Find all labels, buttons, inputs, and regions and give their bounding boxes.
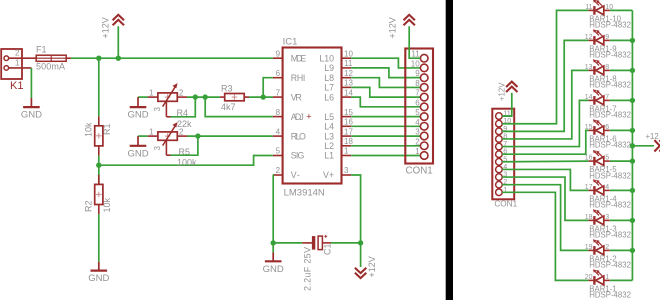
wire R4 pin1 [138,96,148,98]
svg-text:L1: L1 [324,151,334,161]
svg-text:HDSP-4832: HDSP-4832 [589,231,631,240]
svg-text:CON1: CON1 [406,166,433,177]
wire L2 to CON1 pin2 [351,145,420,147]
junction R4 wiper node [193,94,198,99]
svg-text:IC1: IC1 [283,36,298,47]
LED BAR1-7 HDSP-4832 [585,89,631,119]
wire R5 wiper [171,136,198,155]
resistor R2 [84,175,113,215]
svg-text:5: 5 [605,155,609,162]
svg-text:10k: 10k [84,122,94,137]
wire R1 bottom [98,156,100,166]
wire L3 to CON1 pin3 [351,135,420,137]
ground GND at K1 [21,98,42,121]
wire V+ to +12V [360,243,362,267]
wire RHI net [263,78,273,97]
svg-text:18: 18 [585,214,593,221]
svg-text:CON1: CON1 [494,200,517,209]
wire BAR1-1 anode to bus [610,279,633,281]
svg-text:13: 13 [585,64,593,71]
svg-text:L9: L9 [324,63,334,73]
wire +12V to CON1 pin11 [409,26,420,58]
svg-text:3: 3 [153,146,162,151]
svg-text:15: 15 [585,124,593,131]
wire ADJ net [205,97,273,117]
wire CON1 pin10 to BAR1-10 [502,10,588,123]
wire R4 pin2 net [187,96,220,98]
wire CON1 pin8 to BAR1-8 [502,70,588,139]
wire to +12V supply [117,26,119,58]
svg-text:6: 6 [415,98,420,107]
wire CON1 pin5 to BAR1-5 [502,160,588,163]
svg-text:6: 6 [276,69,281,78]
svg-text:4: 4 [605,184,609,191]
svg-text:9: 9 [415,69,420,78]
svg-text:4: 4 [415,118,420,127]
LED BAR1-5 HDSP-4832 [585,150,631,180]
wire L10 to CON1 pin10 [351,58,420,68]
svg-text:HDSP-4832: HDSP-4832 [589,261,631,270]
svg-text:7: 7 [415,89,420,98]
svg-text:1: 1 [15,58,20,67]
svg-text:4k7: 4k7 [221,102,236,112]
svg-text:8: 8 [276,108,281,117]
svg-text:8: 8 [605,64,609,71]
wire bus to +12 supply [632,145,654,147]
junction GND node [271,240,276,245]
wire VR net [249,96,273,98]
svg-text:GND: GND [88,273,109,284]
junction at R1 top [96,56,101,61]
svg-text:V-: V- [291,170,300,180]
wire RLO net [187,135,273,137]
svg-text:3: 3 [153,107,162,112]
svg-text:1: 1 [344,147,349,156]
fuse F1 [31,44,71,71]
junction bus [630,248,635,253]
svg-text:HDSP-4832: HDSP-4832 [589,291,631,300]
LED BAR1-1 HDSP-4832 [585,269,631,299]
LED BAR1-2 HDSP-4832 [585,239,631,269]
svg-text:16: 16 [585,155,593,162]
svg-text:RLO: RLO [291,131,306,141]
wire R1 top [98,58,100,116]
svg-text:3: 3 [344,166,349,175]
svg-text:1: 1 [149,127,154,136]
svg-text:+: + [306,112,311,122]
svg-text:GND: GND [127,110,148,121]
wire CON1 pin9 to BAR1-9 [502,40,588,131]
svg-text:L6: L6 [324,92,334,102]
junction bus [630,38,635,43]
wire L9 to CON1 pin9 [351,68,420,78]
svg-text:12: 12 [585,34,593,41]
LED BAR1-10 HDSP-4832 [585,0,631,30]
junction bus [630,188,635,193]
svg-text:L4: L4 [324,122,334,132]
wire CON1 pin1 to BAR1-1 [502,192,588,280]
ground GND at C1 [263,253,284,275]
wire R2 top [98,165,100,184]
resistor R3 [220,83,249,112]
svg-text:11: 11 [585,4,592,11]
junction bus [630,98,635,103]
resistor R1 [84,116,113,155]
LED BAR1-4 HDSP-4832 [585,179,631,209]
svg-text:K1: K1 [10,80,23,92]
svg-text:8: 8 [415,79,420,88]
wire SIG net [99,156,273,166]
svg-text:2: 2 [605,244,609,251]
svg-text:R1: R1 [102,123,112,135]
svg-text:14: 14 [585,94,593,101]
wire bottom rail right [331,242,361,244]
svg-text:6: 6 [605,124,609,131]
wire CON1 pin7 to BAR1-7 [502,100,588,146]
supply +12V top left [101,15,124,39]
wire CON1 pin4 to BAR1-4 [502,169,588,190]
svg-text:HDSP-4832: HDSP-4832 [589,141,631,150]
wire L8 to CON1 pin8 [351,78,420,88]
LED BAR1-6 HDSP-4832 [585,119,631,149]
wire L5 to CON1 pin5 [351,116,420,118]
ground GND bottom left [88,262,109,284]
svg-text:HDSP-4832: HDSP-4832 [589,81,631,90]
wire V+ net [351,175,360,243]
svg-text:ADJ: ADJ [291,112,304,122]
svg-text:5: 5 [415,108,420,117]
svg-text:HDSP-4832: HDSP-4832 [589,51,631,60]
svg-text:500mA: 500mA [36,61,65,71]
svg-text:C1: C1 [323,243,333,255]
trimmer R5 [148,122,197,167]
wire BAR1-4 anode to bus [610,189,633,191]
svg-text:1: 1 [605,274,609,281]
wire +12 bus vertical [631,10,633,280]
svg-text:MDE: MDE [291,53,307,63]
wire BAR1-7 anode to bus [610,99,633,101]
junction bus [630,158,635,163]
svg-text:7: 7 [605,94,609,101]
svg-text:5: 5 [276,147,281,156]
svg-text:2: 2 [415,137,420,146]
wire BAR1-2 anode to bus [610,249,633,251]
svg-text:100k: 100k [177,157,197,167]
svg-text:17: 17 [585,184,593,191]
wire CON1 pin2 to BAR1-2 [502,185,588,251]
wire L7 to CON1 pin7 [351,87,420,97]
svg-text:3: 3 [415,128,420,137]
ground GND at R4 [127,97,148,121]
svg-text:18: 18 [344,137,353,146]
svg-text:4: 4 [276,127,281,136]
svg-text:GND: GND [21,110,42,121]
wire L6 to CON1 pin6 [351,97,420,107]
svg-text:L7: L7 [324,83,334,93]
wire BAR1-9 anode to bus [610,39,633,41]
svg-text:RHI: RHI [291,73,306,83]
svg-text:14: 14 [344,88,353,97]
capacitor C1 [302,235,332,291]
connector CON1 right sheet [492,109,517,209]
wire V- to GND [272,243,274,253]
svg-text:12: 12 [344,69,353,78]
svg-text:L5: L5 [324,112,334,122]
wire bottom rail left [273,242,302,244]
svg-text:F1: F1 [36,44,47,54]
wire L4 to CON1 pin4 [351,125,420,127]
svg-text:LM3914N: LM3914N [284,187,325,198]
junction ADJ node [203,94,208,99]
wire BAR1-10 anode to bus [610,9,633,11]
wire R4 wiper [171,97,196,117]
wire BAR1-6 anode to bus [610,129,633,131]
svg-text:2: 2 [179,127,184,136]
junction at +12V stub [116,56,121,61]
svg-text:HDSP-4832: HDSP-4832 [589,111,631,120]
wire CON1 pin3 to BAR1-3 [502,177,588,220]
svg-text:+12V: +12V [388,17,398,38]
svg-text:9: 9 [276,49,281,58]
svg-text:11: 11 [344,59,353,68]
svg-text:15: 15 [344,108,353,117]
svg-text:L8: L8 [324,73,334,83]
svg-text:2: 2 [15,49,20,58]
svg-text:1: 1 [415,147,420,156]
svg-text:HDSP-4832: HDSP-4832 [589,21,631,30]
svg-text:2.2uF 25V: 2.2uF 25V [303,247,313,291]
svg-text:R2: R2 [84,200,94,212]
connector CON1 left sheet [405,49,433,177]
svg-text:L3: L3 [324,131,334,141]
wire R5 pin1 [138,135,148,137]
svg-text:+12: +12 [646,132,659,141]
wire R2 to GND [98,214,100,262]
trimmer R4 [148,83,192,129]
op-amp IC1 LM3914N [273,36,354,198]
svg-text:2: 2 [276,166,281,175]
svg-text:7: 7 [276,88,281,97]
svg-text:2: 2 [179,88,184,97]
svg-text:L10: L10 [319,53,334,63]
wire V- net [272,175,274,243]
junction SIG node [96,163,101,168]
svg-text:19: 19 [585,244,593,251]
ground GND at R5 [127,136,148,159]
wire +12V to CON1 right pin11 [502,93,512,116]
connector K1 [1,49,31,92]
LED BAR1-3 HDSP-4832 [585,209,631,239]
wire BAR1-5 anode to bus [610,160,633,162]
svg-text:V+: V+ [323,170,334,180]
svg-text:SIG: SIG [291,151,305,161]
supply +12V right sheet [498,82,518,101]
junction VR/RHI node [261,94,266,99]
svg-text:20: 20 [585,274,593,281]
junction bus [630,68,635,73]
sheet divider [446,0,453,300]
junction bus [630,218,635,223]
svg-text:13: 13 [344,79,353,88]
svg-text:L2: L2 [324,141,334,151]
svg-text:+12V: +12V [367,256,377,277]
junction bus +12 tap [630,143,635,148]
svg-text:GND: GND [263,264,284,275]
svg-text:17: 17 [344,127,353,136]
junction V+ node [358,240,363,245]
wire BAR1-8 anode to bus [610,69,633,71]
junction bus [630,128,635,133]
svg-text:+12V: +12V [101,17,111,38]
supply +12V top right [388,15,415,39]
svg-text:GND: GND [127,148,148,159]
wire L1 to CON1 pin1 [351,155,420,157]
wire K1 pin1 to GND [30,68,32,98]
supply +12V bottom [355,256,377,278]
supply +12V right edge [646,132,660,151]
LED BAR1-9 HDSP-4832 [585,29,631,59]
svg-text:1: 1 [149,88,154,97]
wire BAR1-3 anode to bus [610,219,633,221]
svg-text:HDSP-4832: HDSP-4832 [589,171,631,180]
junction R5 wiper node [195,133,200,138]
svg-text:10k: 10k [102,197,112,212]
svg-text:HDSP-4832: HDSP-4832 [589,201,631,210]
svg-text:16: 16 [344,118,353,127]
wire +12V main net [71,57,273,59]
svg-text:3: 3 [605,214,609,221]
LED BAR1-8 HDSP-4832 [585,59,631,89]
wire CON1 pin6 to BAR1-6 [502,130,588,154]
svg-text:10: 10 [344,49,353,58]
svg-text:R3: R3 [221,83,233,93]
svg-text:VR: VR [291,92,302,102]
svg-text:+12V: +12V [498,82,507,101]
svg-text:10: 10 [411,59,420,68]
svg-text:9: 9 [605,34,609,41]
